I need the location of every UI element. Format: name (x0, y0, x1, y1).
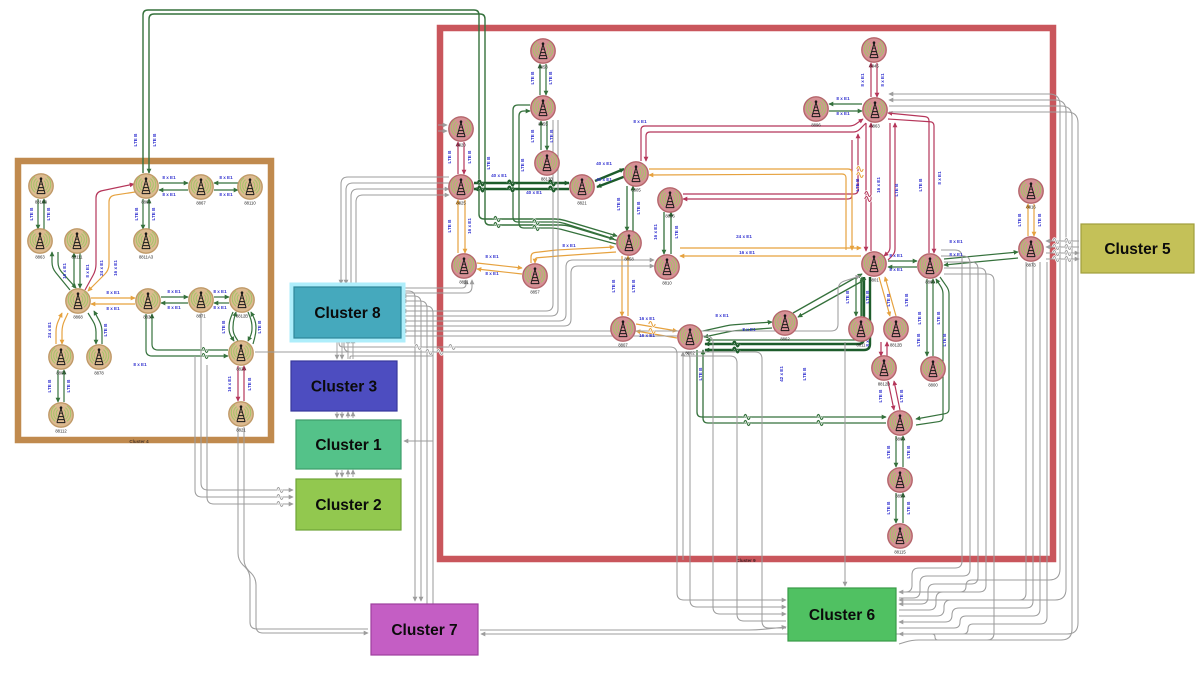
wire edge 8807-8802 orange b (636, 331, 677, 338)
wire edge 8801-8860 a (888, 260, 917, 262)
wire trunk 8801-8802 a (705, 277, 864, 344)
svg-text:8812D: 8812D (878, 382, 890, 387)
svg-text:LTE B: LTE B (247, 377, 252, 391)
wire edge 8812B-8812D red b (886, 342, 888, 356)
svg-text:16 x E1: 16 x E1 (653, 224, 658, 240)
svg-text:Cluster 7: Cluster 7 (391, 622, 457, 639)
wire edge 8868-88111 a (73, 253, 75, 288)
wire edge 8816-8873 orange b (1033, 204, 1035, 236)
svg-text:8 x E1: 8 x E1 (167, 305, 181, 310)
svg-text:8867: 8867 (196, 201, 206, 206)
wire gray 8873-c6 7 (899, 262, 1040, 628)
wire gray 8871-c2 (201, 313, 293, 490)
cluster 5 box (1081, 224, 1194, 273)
svg-text:LTE B: LTE B (530, 129, 535, 143)
svg-text:8 x E1: 8 x E1 (836, 96, 850, 101)
node 8803 (left cluster) (49, 345, 73, 376)
svg-text:8 x E1: 8 x E1 (219, 175, 233, 180)
wire edge 8812B-8828 left a (229, 312, 234, 341)
node 8813B (right cluster) (535, 151, 559, 182)
node 8851 (right cluster) (452, 254, 476, 285)
svg-text:LTE B: LTE B (548, 71, 553, 85)
svg-text:8 x E1: 8 x E1 (485, 271, 499, 276)
svg-text:LTE B: LTE B (257, 320, 262, 334)
node 8896 (right cluster) (804, 97, 828, 128)
svg-text:16 x E1: 16 x E1 (467, 218, 472, 234)
wire edge 8855-8813B b (546, 121, 548, 150)
wire trunk 8805-8821 b (597, 176, 626, 187)
node 8801 (right cluster) (862, 252, 886, 283)
wire gray 8801-c6 1 (899, 250, 962, 592)
wire gray 8873-c6 6 (899, 262, 1033, 622)
wire edge 8801-8802 med (706, 278, 861, 340)
svg-text:8 x E1: 8 x E1 (880, 73, 885, 87)
svg-text:LTE B: LTE B (549, 129, 554, 143)
svg-text:8810: 8810 (662, 281, 672, 286)
wire edge 8851-8825 orange a (457, 200, 459, 253)
svg-text:8828: 8828 (236, 367, 246, 372)
wire edge 8855-8858core a (513, 105, 614, 239)
svg-text:LTE B: LTE B (152, 133, 157, 147)
wire edge 8858core-8807 orange b (627, 256, 629, 316)
node 8806 (right cluster) (658, 188, 682, 219)
node 8863 (right cluster) (863, 98, 887, 129)
wire edge 8860B-8859B b (902, 436, 904, 467)
cluster 8 box (290, 283, 406, 343)
wire gray c8-c7 v4 (402, 306, 433, 604)
wire edge 8830-8871 a (161, 296, 188, 298)
svg-text:8 x E1: 8 x E1 (860, 73, 865, 87)
wire arrow boxes 02 (347, 339, 349, 359)
wire gray c8-8855 2 (402, 120, 558, 316)
wire edge 8896-8863 a (829, 103, 862, 105)
svg-text:24 x E1: 24 x E1 (47, 322, 52, 338)
wire edge 8812D-8860B red b (894, 381, 900, 410)
wire arrow boxes 01 (341, 339, 343, 359)
wire arrow boxes 20 (336, 470, 338, 477)
wire edge 8805-8858core a (626, 186, 628, 231)
svg-text:8 x E1: 8 x E1 (562, 243, 576, 248)
cluster 7 box (371, 604, 478, 655)
node 88115 (right cluster) (888, 524, 912, 555)
wire edge 8858-8855 top a (539, 64, 541, 95)
wire gray c5-8873 3 (1046, 252, 1079, 254)
wire edge 8805-8863 red loop b (646, 123, 866, 161)
cluster 9 boundary (red) (440, 28, 1053, 559)
svg-text:LTE B: LTE B (520, 158, 525, 172)
svg-text:8811: 8811 (856, 343, 866, 348)
svg-text:LTE B: LTE B (29, 207, 34, 221)
node 8830 (left cluster) (136, 289, 160, 320)
svg-text:8860: 8860 (895, 437, 905, 442)
wire arrow boxes 03 (352, 339, 354, 359)
svg-text:16 x E1: 16 x E1 (639, 333, 655, 338)
wire gray c3-8802 (350, 352, 433, 359)
svg-text:8806: 8806 (665, 214, 675, 219)
svg-text:8 x E1: 8 x E1 (949, 239, 963, 244)
svg-text:8805: 8805 (631, 188, 641, 193)
node 8811A3 (left cluster) (134, 229, 158, 260)
node 8807 (right cluster) (611, 317, 635, 348)
svg-text:LTE B: LTE B (886, 445, 891, 459)
node 8828 (left cluster) (229, 341, 253, 372)
svg-text:8816: 8816 (1026, 205, 1036, 210)
svg-text:8819B: 8819B (35, 200, 47, 205)
svg-text:16 x E1: 16 x E1 (876, 177, 881, 193)
wire edge 8828-8830 b (146, 314, 228, 356)
svg-text:Cluster 8: Cluster 8 (314, 305, 381, 322)
wire gray c8-c6 2 (344, 339, 786, 607)
svg-text:42 x E1: 42 x E1 (779, 366, 784, 382)
wire edge 8805-8801 orange loop a (649, 169, 852, 250)
wire edge 8860-8873 a (944, 252, 1018, 259)
svg-text:24 x E1: 24 x E1 (99, 260, 104, 276)
wire edge 8802-8862R b (704, 328, 772, 337)
svg-text:LTE B: LTE B (906, 445, 911, 459)
wire gray 8830-c2 (195, 356, 293, 497)
svg-text:Cluster 3: Cluster 3 (311, 379, 378, 396)
svg-text:8 x E1: 8 x E1 (937, 171, 942, 185)
svg-text:24 x E1: 24 x E1 (736, 234, 752, 239)
wire edge 8871-8812B b (214, 302, 229, 304)
node 8805 (right cluster) (624, 162, 648, 193)
wire edge 8820-8825 crimson a (457, 142, 459, 174)
svg-text:40 x E1: 40 x E1 (596, 161, 612, 166)
wire edge 8816-8873 orange a (1027, 204, 1029, 236)
svg-text:8862: 8862 (780, 337, 790, 342)
svg-text:8811A3: 8811A3 (139, 255, 154, 260)
wire gray c5-8873 2 (1046, 246, 1079, 248)
wire arrow boxes 12 (347, 412, 349, 418)
wire edge 8868-8862 crimson (85, 184, 134, 290)
svg-text:8825: 8825 (456, 201, 466, 206)
node 8812D (right cluster) (872, 356, 896, 387)
svg-text:8863: 8863 (35, 255, 45, 260)
svg-text:8851: 8851 (459, 280, 469, 285)
svg-text:LTE B: LTE B (878, 389, 883, 403)
node 8873 (right cluster) (1019, 237, 1043, 268)
svg-text:LTE B: LTE B (151, 207, 156, 221)
edge capacity labels (29, 71, 1042, 515)
svg-text:Cluster 6: Cluster 6 (809, 607, 876, 624)
svg-text:8830: 8830 (143, 315, 153, 320)
wire edge 8863-8801 red A a (865, 123, 867, 251)
svg-text:LTE B: LTE B (47, 379, 52, 393)
node 8859 (right cluster) (888, 468, 912, 499)
svg-text:8801: 8801 (869, 278, 879, 283)
cluster 6 box (788, 588, 896, 641)
wire edge 8801-8811 b (861, 277, 863, 316)
wire edge 8806-8810 a (663, 212, 665, 254)
node 8862 (right cluster) (773, 311, 797, 342)
wire edge 8801-8812B orange a (879, 277, 890, 316)
svg-text:LTE B: LTE B (66, 379, 71, 393)
svg-text:LTE B: LTE B (221, 320, 226, 334)
wire edge 8871-8812B a (214, 296, 229, 298)
svg-text:8871: 8871 (196, 314, 206, 319)
wire gray c8-c7 v2 (402, 296, 421, 601)
wire gray 8863-c6 r2 (889, 100, 1066, 600)
wire edge 8860-8863 red loop b (888, 119, 934, 253)
wire arrow boxes 23 (352, 470, 354, 477)
svg-text:40 x E1: 40 x E1 (526, 190, 542, 195)
node 88111 (left cluster) (65, 229, 89, 260)
wire gray 8801-c6 2 (899, 256, 970, 598)
wire edge 8868-8830 a (91, 297, 135, 299)
node 8858 (right cluster) (617, 231, 641, 262)
svg-text:8813B: 8813B (541, 177, 553, 182)
svg-text:LTE B: LTE B (942, 333, 947, 347)
wire arrow boxes 10 (336, 412, 338, 418)
svg-text:8820: 8820 (456, 143, 466, 148)
wire gray stub 8820 a (438, 124, 447, 126)
svg-text:LTE B: LTE B (631, 279, 636, 293)
node 8819B (left cluster) (29, 174, 53, 205)
wire gray c5-8873 1 (1046, 240, 1079, 242)
wire edge 8828-8821 red a (237, 366, 239, 401)
svg-text:40 x E1: 40 x E1 (491, 173, 507, 178)
wire edge 8801-8860 b (888, 266, 917, 268)
wire edge 8862-8858core via top a (143, 10, 617, 236)
svg-text:LTE B: LTE B (936, 311, 941, 325)
svg-text:LTE B: LTE B (447, 219, 452, 233)
wire arrow boxes 11 (341, 412, 343, 418)
svg-text:8 x E1: 8 x E1 (162, 175, 176, 180)
svg-text:LTE B: LTE B (886, 501, 891, 515)
node 8812B (right cluster) (884, 317, 908, 348)
wire edge 8812D-8860B red a (888, 381, 894, 410)
wire gray c8-c6 1 (339, 339, 786, 600)
wire gray 8828-c2 (207, 365, 293, 504)
wire edge 8863-8801 red B a (884, 123, 890, 256)
wire edge 8810-8801 orange b (680, 255, 861, 257)
node 8871 (left cluster) (189, 288, 213, 319)
node 8820 (right cluster) (449, 117, 473, 148)
wire edge 8868-8863 a (52, 252, 70, 290)
svg-text:8 x E1: 8 x E1 (715, 313, 729, 318)
svg-text:LTE B: LTE B (899, 389, 904, 403)
svg-text:8821: 8821 (236, 428, 246, 433)
svg-text:8 x E1: 8 x E1 (133, 362, 147, 367)
svg-text:8 x E1: 8 x E1 (889, 267, 903, 272)
wire edge 8857-8858core orange a (531, 247, 614, 263)
wire edge 8859B-88115 a (895, 493, 897, 523)
svg-text:LTE B: LTE B (46, 207, 51, 221)
wire edge 8830-8871 b (161, 302, 188, 304)
wire gray c8-c7 v1 (402, 291, 415, 601)
wire gray c8-8810 2 (402, 266, 654, 326)
svg-text:8857: 8857 (530, 290, 540, 295)
node 8860 (right cluster) (888, 411, 912, 442)
node 88112 (left cluster) (49, 403, 73, 434)
svg-text:8802: 8802 (685, 351, 695, 356)
svg-text:40 x E1: 40 x E1 (596, 177, 612, 182)
wire gray c8-8825 3 (351, 189, 449, 284)
svg-text:LTE B: LTE B (904, 293, 909, 307)
wire edge 8805-8858core b (632, 186, 634, 231)
svg-text:8 x E1: 8 x E1 (162, 192, 176, 197)
svg-text:8812B: 8812B (890, 343, 902, 348)
svg-text:8855: 8855 (538, 122, 548, 127)
svg-text:Cluster 2: Cluster 2 (315, 497, 381, 514)
node 8800 (right cluster) (921, 357, 945, 388)
wire gray 8828-c6 (255, 352, 786, 628)
svg-text:LTE B: LTE B (916, 333, 921, 347)
wire gray c8-8855 1 (402, 120, 553, 311)
node 8821 (left cluster) (229, 402, 253, 433)
wire edge 8862-8858core via top b (149, 14, 619, 241)
wire edge 8851-8825 orange b (464, 200, 466, 253)
svg-text:LTE B: LTE B (698, 367, 703, 381)
svg-text:LTE B: LTE B (917, 311, 922, 325)
wire edge 8855-8858core b (519, 111, 616, 244)
svg-text:16 x E1: 16 x E1 (227, 376, 232, 392)
svg-text:8 x E1: 8 x E1 (742, 327, 756, 332)
svg-text:LTE B: LTE B (616, 197, 621, 211)
svg-text:8 x E1: 8 x E1 (85, 264, 90, 278)
wire edge 8851-8857 b (477, 269, 522, 274)
node 8863 (left cluster) (28, 229, 52, 260)
cluster 1 box (296, 420, 401, 469)
node 8857 (right cluster) (523, 264, 547, 295)
svg-text:8873: 8873 (1026, 263, 1036, 268)
wire gray c8-8851 1 (402, 280, 466, 288)
svg-text:LTE B: LTE B (1017, 213, 1022, 227)
svg-text:8 x E1: 8 x E1 (219, 192, 233, 197)
wire edge 8845-8863 red b (876, 63, 878, 97)
node 8810 (right cluster) (655, 255, 679, 286)
cluster 2 box (296, 479, 401, 530)
wire edge 8862-8811A3 b (142, 199, 144, 229)
svg-text:8 x E1: 8 x E1 (167, 289, 181, 294)
wire edge 8828-8821 red b (243, 366, 245, 401)
svg-text:8845: 8845 (869, 64, 879, 69)
wire edge 8820-8825 crimson b (463, 142, 465, 174)
wire edge 8806-8810 b (670, 212, 672, 254)
wire edge 8803-88112 b (63, 370, 65, 402)
svg-text:8860: 8860 (925, 280, 935, 285)
wire edge 8828-8830 a (152, 314, 228, 350)
wire edge 8862-8868 orange (88, 192, 135, 291)
wire edge 8863-8801 red B b (888, 123, 895, 260)
node 88110 (left cluster) (238, 175, 262, 206)
node 8811 (right cluster) (849, 317, 873, 348)
wire arrow boxes 00 (336, 339, 338, 359)
wire gray w-c6 3 (402, 336, 786, 614)
wire edge 8860-8860B loop a (916, 277, 949, 419)
wire gray c1 right (404, 440, 433, 442)
svg-text:8807: 8807 (618, 343, 628, 348)
node 8855 (right cluster) (531, 96, 555, 127)
wire edge 8812B-8828 left b (233, 312, 238, 341)
svg-text:8858: 8858 (624, 257, 634, 262)
node 8812B (left cluster) (230, 288, 254, 319)
node 8821 (right cluster) (570, 175, 594, 206)
wire trunk 8825-8821 E (474, 182, 569, 184)
svg-text:8896: 8896 (811, 123, 821, 128)
wire edge 8802-8860B a (697, 350, 886, 417)
svg-text:LTE B: LTE B (611, 279, 616, 293)
wire edge 8855-8813B a (540, 121, 542, 150)
node 8878 (left cluster) (87, 345, 111, 376)
wire edge 8802-8860B b (703, 350, 886, 423)
wire gray c5-8873 4 (1046, 258, 1079, 260)
wire edge 8896-8863 b (829, 110, 862, 112)
svg-text:LTE B: LTE B (865, 290, 870, 304)
wire edge 8810-8801 orange a (680, 247, 861, 249)
wire gray c8-c7 v3 (402, 301, 427, 604)
wire edge 8858-8855 top b (545, 64, 547, 95)
wire edge 8863-8801 red A b (870, 123, 872, 251)
wire edge 8860-8873 b (944, 258, 1018, 265)
svg-text:LTE B: LTE B (486, 156, 491, 170)
wire edge 8868-8803 a (62, 313, 68, 344)
wire edge 8860-8863 red loop a (888, 113, 929, 253)
cluster 3 box (291, 361, 397, 411)
wire gray c6 fan2 (899, 274, 994, 644)
svg-text:LTE B: LTE B (1037, 213, 1042, 227)
wire gray c8-8851 2 (402, 280, 472, 293)
wire edge 8857-8858core orange b (535, 252, 616, 263)
wire gray 8863-c6 r3 (889, 106, 1072, 640)
node 8860 (right cluster) (918, 254, 942, 285)
wire edge 8851-8857 a (477, 263, 522, 268)
svg-text:LTE B: LTE B (674, 225, 679, 239)
wire edge 8868-8830 b (91, 303, 135, 305)
wire arrow boxes 22 (347, 470, 349, 477)
node 8858 (right cluster) (531, 39, 555, 70)
node 8868 (left cluster) (66, 289, 90, 320)
wire gray w-c6 4 (683, 356, 786, 621)
wire edge 8859B-88115 b (902, 493, 904, 523)
wire edge 8819B-8863 a (43, 199, 45, 229)
wire edge 8801-8811 a (855, 277, 857, 316)
wire gray 8860-c6 3 (899, 262, 978, 604)
wire gray c8-8810 1 (402, 260, 654, 321)
svg-text:8803: 8803 (56, 371, 66, 376)
svg-text:8878: 8878 (94, 371, 104, 376)
wire edge 8801-8812B orange b (885, 277, 896, 316)
svg-text:LTE B: LTE B (802, 367, 807, 381)
svg-text:LTE B: LTE B (467, 150, 472, 164)
wire edge 8860B-8859B a (895, 436, 897, 467)
svg-text:8858: 8858 (538, 65, 548, 70)
svg-text:LTE B: LTE B (918, 178, 923, 192)
wire trunk 8821-8825 W (474, 188, 569, 190)
svg-text:LTE B: LTE B (447, 150, 452, 164)
wire edge 8862-8867 a (159, 182, 188, 184)
svg-text:8 x E1: 8 x E1 (949, 252, 963, 257)
svg-text:16 x E1: 16 x E1 (739, 250, 755, 255)
svg-text:8 x E1: 8 x E1 (106, 290, 120, 295)
wire arrow boxes 21 (341, 470, 343, 477)
wire edge 8812B-8812D red a (880, 342, 882, 356)
node 8867 (left cluster) (189, 175, 213, 206)
svg-text:16 x E1: 16 x E1 (113, 260, 118, 276)
wire gray c8-8825 4 (356, 195, 449, 284)
wire gray 8821L-c7 b (244, 427, 368, 633)
wire edge 8860-8800 b (932, 279, 934, 356)
wire edge 8806-8863 red b (683, 140, 852, 199)
wire gray c8-8825 1 (341, 177, 449, 284)
wire edge 8860-8860B loop b (916, 279, 943, 425)
svg-text:8 x E1: 8 x E1 (836, 111, 850, 116)
wire edge 8807-8802 orange a (636, 324, 677, 331)
wire gray 8863-c7 r4 (481, 112, 1078, 634)
svg-text:Cluster 5: Cluster 5 (1104, 241, 1171, 258)
svg-text:88112: 88112 (55, 429, 67, 434)
wire edge 8845-8863 red a (870, 63, 872, 97)
